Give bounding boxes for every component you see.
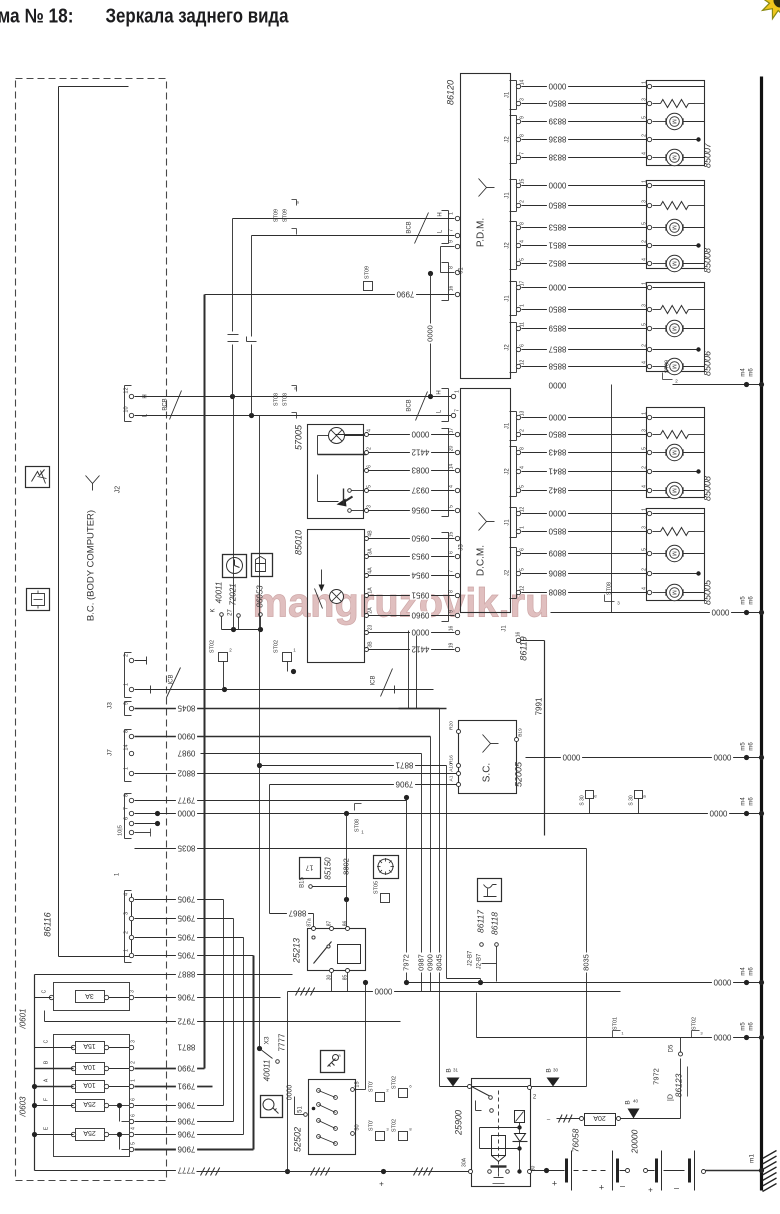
svg-text:4A: 4A: [368, 567, 374, 574]
svg-text:51: 51: [298, 1106, 304, 1113]
svg-text:4: 4: [520, 240, 526, 243]
svg-text:0000: 0000: [548, 82, 566, 91]
svg-text:0000: 0000: [411, 430, 429, 439]
svg-text:7906: 7906: [177, 1101, 195, 1110]
svg-text:25900: 25900: [454, 1110, 464, 1136]
svg-text:B19: B19: [518, 728, 524, 737]
svg-text:S 30: S 30: [580, 795, 586, 806]
svg-text:8045: 8045: [434, 954, 443, 971]
svg-text:/0603: /0603: [19, 1096, 28, 1118]
svg-text:17: 17: [306, 864, 314, 871]
svg-text:40011: 40011: [263, 1060, 272, 1082]
svg-text:8853: 8853: [548, 223, 566, 232]
svg-text:m4: m4: [741, 797, 747, 806]
svg-text:m4: m4: [741, 368, 747, 377]
svg-text:8857: 8857: [548, 345, 566, 354]
svg-text:1: 1: [520, 304, 526, 307]
svg-text:0900: 0900: [177, 732, 195, 741]
svg-text:8867: 8867: [288, 909, 306, 918]
svg-text:1: 1: [449, 212, 455, 215]
svg-text:3A: 3A: [368, 548, 374, 555]
svg-text:8850: 8850: [548, 99, 566, 108]
svg-text:ICB: ICB: [169, 674, 175, 684]
svg-text:ST02: ST02: [392, 1119, 398, 1132]
svg-text:ST08: ST08: [274, 393, 280, 406]
svg-text:J2: J2: [505, 344, 511, 351]
svg-text:85010: 85010: [294, 530, 304, 555]
svg-text:9: 9: [449, 610, 455, 613]
svg-text:3: 3: [124, 912, 130, 915]
svg-text:0987: 0987: [416, 954, 425, 971]
svg-text:20: 20: [449, 446, 455, 452]
svg-text:15A: 15A: [83, 1042, 96, 1049]
svg-text:5: 5: [520, 258, 526, 261]
svg-text:1: 1: [124, 683, 130, 686]
svg-text:7990: 7990: [396, 290, 414, 299]
svg-text:P.D.M.: P.D.M.: [476, 218, 487, 247]
svg-text:4412: 4412: [411, 448, 429, 457]
svg-text:8806: 8806: [548, 569, 566, 578]
svg-text:7972: 7972: [177, 1017, 195, 1026]
svg-text:12: 12: [520, 360, 526, 366]
svg-text:S.C.: S.C.: [482, 763, 493, 782]
svg-text:7: 7: [449, 229, 455, 232]
svg-text:8850: 8850: [548, 201, 566, 210]
svg-text:0987: 0987: [177, 749, 195, 758]
svg-text:8045: 8045: [177, 704, 195, 713]
svg-text:2: 2: [124, 654, 130, 657]
svg-text:5: 5: [367, 485, 373, 488]
svg-text:5: 5: [642, 116, 648, 119]
svg-text:4: 4: [642, 485, 648, 488]
svg-text:0937: 0937: [411, 486, 429, 495]
svg-text:2: 2: [642, 466, 648, 469]
svg-text:7777: 7777: [278, 1033, 287, 1051]
svg-text:52005: 52005: [514, 761, 524, 787]
svg-text:3: 3: [131, 1040, 137, 1043]
svg-text:m6: m6: [749, 368, 755, 377]
svg-text:J2-B7: J2-B7: [477, 953, 483, 969]
svg-text:0000: 0000: [548, 509, 566, 518]
svg-text:1: 1: [131, 1079, 137, 1082]
svg-text:8802: 8802: [177, 769, 195, 778]
svg-text:ма № 18:: ма № 18:: [0, 6, 74, 28]
svg-text:14: 14: [520, 80, 526, 86]
svg-text:ST02: ST02: [392, 1076, 398, 1089]
svg-text:85005: 85005: [703, 579, 713, 605]
svg-text:0000: 0000: [709, 809, 727, 818]
svg-text:J1: J1: [505, 192, 511, 199]
svg-text:2: 2: [520, 200, 526, 203]
svg-text:D5: D5: [669, 1044, 675, 1052]
svg-text:17: 17: [520, 281, 526, 287]
svg-text:m5: m5: [741, 742, 747, 751]
svg-text:6: 6: [449, 551, 455, 554]
svg-text:1: 1: [642, 412, 648, 415]
svg-text:0953: 0953: [411, 552, 429, 561]
svg-text:11: 11: [520, 322, 526, 327]
svg-text:1: 1: [642, 81, 648, 84]
svg-text:m6: m6: [749, 1022, 755, 1031]
svg-text:7906: 7906: [177, 1145, 195, 1154]
svg-text:8: 8: [520, 447, 526, 450]
svg-text:87a: 87a: [307, 918, 313, 927]
svg-text:31: 31: [453, 1068, 459, 1073]
svg-text:7: 7: [520, 152, 526, 155]
svg-text:7972: 7972: [652, 1068, 661, 1085]
svg-text:4: 4: [642, 258, 648, 261]
svg-text:ST05: ST05: [374, 881, 380, 894]
svg-text:3: 3: [520, 98, 526, 101]
svg-text:0083: 0083: [411, 466, 429, 475]
svg-text:3: 3: [642, 526, 648, 529]
svg-text:0000: 0000: [713, 1033, 731, 1042]
svg-text:2A: 2A: [368, 607, 374, 614]
svg-text:30A: 30A: [462, 1157, 468, 1167]
svg-text:8802: 8802: [341, 858, 350, 875]
svg-text:ST0': ST0': [369, 1120, 375, 1131]
svg-text:4: 4: [642, 152, 648, 155]
svg-text:5: 5: [642, 222, 648, 225]
svg-text:1: 1: [455, 390, 461, 393]
svg-text:8841: 8841: [548, 467, 566, 476]
svg-text:C: C: [42, 989, 48, 993]
svg-text:8850: 8850: [548, 430, 566, 439]
svg-text:3: 3: [642, 429, 648, 432]
svg-text:8836: 8836: [548, 135, 566, 144]
svg-text:6: 6: [131, 1098, 137, 1101]
svg-text:76058: 76058: [571, 1128, 581, 1152]
svg-text:ST0': ST0': [369, 1081, 375, 1092]
svg-text:D.C.M.: D.C.M.: [476, 545, 487, 576]
svg-text:16: 16: [449, 626, 455, 632]
svg-text:X3: X3: [264, 1036, 271, 1044]
svg-text:0000: 0000: [548, 283, 566, 292]
svg-text:85007: 85007: [703, 142, 713, 168]
svg-text:8850: 8850: [548, 305, 566, 314]
svg-text:–: –: [620, 1181, 625, 1191]
svg-text:J3: J3: [459, 544, 465, 551]
svg-text:12: 12: [520, 586, 526, 592]
svg-text:0000: 0000: [713, 753, 731, 762]
svg-text:25A: 25A: [83, 1129, 96, 1136]
svg-text:8: 8: [449, 266, 455, 269]
svg-text:14: 14: [124, 744, 130, 750]
svg-text:J2: J2: [505, 136, 511, 143]
svg-text:4: 4: [131, 1127, 137, 1130]
svg-text:9: 9: [520, 116, 526, 119]
svg-text:20A: 20A: [593, 1114, 606, 1121]
svg-text:0950: 0950: [411, 534, 429, 543]
svg-text:0000: 0000: [425, 325, 434, 342]
svg-text:1A: 1A: [368, 587, 374, 594]
svg-text:6: 6: [520, 548, 526, 551]
svg-text:3: 3: [642, 304, 648, 307]
svg-text:J1: J1: [505, 422, 511, 429]
svg-text:7: 7: [124, 807, 130, 810]
svg-text:86119: 86119: [519, 636, 529, 660]
svg-text:8871: 8871: [395, 761, 413, 770]
svg-text:0960: 0960: [411, 611, 429, 620]
svg-text:–: –: [674, 1183, 679, 1193]
svg-text:2: 2: [642, 240, 648, 243]
svg-text:7906: 7906: [177, 1117, 195, 1126]
svg-text:40011: 40011: [215, 582, 224, 604]
svg-text:2: 2: [642, 134, 648, 137]
svg-text:1: 1: [642, 180, 648, 183]
svg-text:ICB: ICB: [371, 675, 377, 685]
svg-text:5: 5: [642, 548, 648, 551]
svg-text:0000: 0000: [562, 753, 580, 762]
svg-text:5: 5: [642, 447, 648, 450]
svg-text:F: F: [44, 1098, 50, 1101]
svg-text:+: +: [379, 1180, 384, 1189]
svg-text:25A: 25A: [83, 1100, 96, 1107]
svg-text:8035: 8035: [581, 954, 590, 971]
svg-text:8: 8: [520, 134, 526, 137]
svg-text:m1: m1: [749, 1154, 756, 1163]
svg-text:85008: 85008: [703, 476, 713, 501]
svg-text:2: 2: [642, 568, 648, 571]
svg-text:m5: m5: [741, 596, 747, 605]
svg-text:0951: 0951: [411, 591, 429, 600]
svg-text:8859: 8859: [548, 324, 566, 333]
svg-text:7906: 7906: [177, 993, 195, 1002]
svg-text:12: 12: [124, 387, 130, 393]
svg-text:ST02: ST02: [692, 1017, 698, 1030]
svg-text:10: 10: [124, 406, 130, 412]
svg-text:3A: 3A: [85, 992, 94, 999]
svg-text:J3: J3: [107, 702, 114, 709]
svg-text:+: +: [552, 1179, 557, 1189]
svg-text:M: M: [671, 155, 677, 160]
svg-text:0000: 0000: [548, 381, 566, 390]
svg-text:ST09: ST09: [283, 209, 289, 222]
svg-text:3: 3: [367, 505, 373, 508]
svg-text:9: 9: [124, 702, 130, 705]
svg-text:1: 1: [520, 526, 526, 529]
svg-text:2: 2: [124, 931, 130, 934]
svg-text:S 30: S 30: [629, 795, 635, 806]
svg-text:M: M: [671, 364, 677, 369]
svg-text:ST08: ST08: [283, 393, 289, 406]
svg-text:86116: 86116: [43, 912, 53, 936]
svg-text:8871: 8871: [177, 1043, 195, 1052]
svg-text:8035: 8035: [177, 844, 195, 853]
svg-text:0954: 0954: [411, 571, 429, 580]
svg-text:m6: m6: [749, 967, 755, 976]
svg-text:86053: 86053: [256, 585, 265, 608]
svg-text:0000: 0000: [548, 413, 566, 422]
svg-text:8838: 8838: [548, 153, 566, 162]
svg-text:0900: 0900: [425, 954, 434, 971]
svg-text:J1: J1: [505, 295, 511, 302]
svg-text:m5: m5: [741, 1022, 747, 1031]
svg-text:ST09: ST09: [365, 266, 371, 279]
svg-text:86: 86: [343, 921, 349, 927]
svg-text:19: 19: [449, 643, 455, 649]
svg-text:M: M: [671, 326, 677, 331]
svg-text:J2-B7: J2-B7: [468, 950, 474, 966]
svg-text:m6: m6: [749, 742, 755, 751]
svg-text:40: 40: [633, 1099, 639, 1104]
svg-text:2: 2: [642, 344, 648, 347]
svg-text:J1: J1: [459, 267, 465, 274]
svg-text:8851: 8851: [548, 241, 566, 250]
svg-text:4: 4: [520, 466, 526, 469]
svg-text:86120: 86120: [446, 80, 456, 105]
svg-text:Зеркала заднего вида: Зеркала заднего вида: [106, 6, 290, 28]
svg-text:8852: 8852: [548, 259, 566, 268]
svg-text:14: 14: [449, 464, 455, 470]
svg-text:16: 16: [449, 286, 455, 292]
svg-text:5: 5: [131, 1142, 137, 1145]
svg-text:86117: 86117: [476, 910, 486, 933]
svg-text:2: 2: [367, 447, 373, 450]
svg-text:ST08: ST08: [355, 819, 361, 832]
svg-text:8: 8: [124, 730, 130, 733]
svg-text:8839: 8839: [548, 117, 566, 126]
svg-text:85150: 85150: [324, 857, 333, 880]
svg-text:J2: J2: [505, 569, 511, 576]
svg-text:0000: 0000: [713, 978, 731, 987]
svg-text:BCB: BCB: [407, 399, 413, 411]
svg-text:ST01: ST01: [613, 1017, 619, 1030]
svg-text:3B: 3B: [368, 641, 374, 648]
svg-text:8850: 8850: [548, 527, 566, 536]
svg-text:1: 1: [642, 282, 648, 285]
svg-text:4: 4: [124, 893, 130, 896]
svg-text:7991: 7991: [177, 1082, 195, 1091]
svg-text:M: M: [671, 225, 677, 230]
svg-text:3: 3: [642, 98, 648, 101]
svg-text:K: K: [211, 608, 217, 612]
svg-text:23: 23: [368, 625, 374, 631]
svg-text:8858: 8858: [548, 362, 566, 371]
svg-text:7991: 7991: [535, 697, 544, 715]
svg-text:7777: 7777: [177, 1166, 195, 1175]
svg-text:8: 8: [520, 222, 526, 225]
svg-text:ST02: ST02: [210, 640, 216, 653]
svg-text:4: 4: [449, 485, 455, 488]
svg-text:M: M: [671, 450, 677, 455]
svg-text:3: 3: [130, 990, 136, 993]
svg-text:M: M: [671, 590, 677, 595]
svg-text:7: 7: [455, 409, 461, 412]
svg-text:8843: 8843: [548, 448, 566, 457]
svg-text:R20: R20: [449, 721, 455, 730]
svg-text:57005: 57005: [294, 424, 304, 450]
svg-text:1: 1: [124, 767, 130, 770]
svg-text:12: 12: [520, 507, 526, 513]
svg-text:4: 4: [642, 361, 648, 364]
svg-text:25213: 25213: [292, 938, 302, 964]
svg-text:10A: 10A: [83, 1063, 96, 1070]
svg-text:7906: 7906: [395, 780, 413, 789]
svg-text:A10: A10: [449, 763, 455, 772]
svg-text:7906: 7906: [177, 1130, 195, 1139]
svg-text:72021: 72021: [229, 583, 238, 605]
svg-text:0000: 0000: [177, 809, 195, 818]
svg-text:B: B: [625, 1100, 632, 1104]
svg-text:10|5: 10|5: [118, 825, 124, 836]
svg-text:4B: 4B: [368, 530, 374, 537]
svg-text:6: 6: [124, 817, 130, 820]
svg-text:86123: 86123: [674, 1073, 684, 1097]
svg-text:ST02: ST02: [274, 640, 280, 653]
svg-text:6: 6: [367, 465, 373, 468]
svg-text:15: 15: [520, 179, 526, 185]
svg-text:50: 50: [355, 1124, 361, 1130]
svg-text:5: 5: [520, 485, 526, 488]
svg-text:0000: 0000: [411, 628, 429, 637]
svg-text:M: M: [671, 119, 677, 124]
svg-text:15: 15: [355, 1081, 361, 1087]
svg-text:3: 3: [642, 200, 648, 203]
svg-text:|D: |D: [668, 1094, 675, 1101]
svg-text:1: 1: [642, 508, 648, 511]
svg-text:85008: 85008: [703, 248, 713, 273]
svg-text:J1: J1: [505, 519, 511, 526]
svg-text:J2: J2: [115, 486, 122, 494]
svg-text:0000: 0000: [287, 1085, 294, 1101]
svg-text:6: 6: [131, 1114, 137, 1117]
svg-text:30: 30: [553, 1068, 559, 1073]
svg-text:8: 8: [124, 794, 130, 797]
svg-text:M: M: [671, 488, 677, 493]
svg-text:7905: 7905: [177, 951, 195, 960]
svg-text:J1: J1: [502, 625, 508, 632]
svg-text:8842: 8842: [548, 486, 566, 495]
svg-text:B: B: [446, 1068, 453, 1072]
svg-text:85006: 85006: [703, 351, 713, 376]
svg-text:m4: m4: [741, 967, 747, 976]
svg-text:7905: 7905: [177, 914, 195, 923]
svg-text:J7: J7: [107, 749, 114, 756]
svg-text:H: H: [438, 212, 444, 216]
svg-text:10A: 10A: [83, 1081, 96, 1088]
svg-text:mangruzovik.ru: mangruzovik.ru: [253, 580, 550, 626]
svg-text:13: 13: [520, 411, 526, 417]
svg-text:20000: 20000: [630, 1129, 640, 1154]
svg-text:7990: 7990: [177, 1064, 195, 1073]
svg-text:17: 17: [449, 428, 455, 434]
svg-text:2: 2: [131, 1061, 137, 1064]
svg-text:B.C. (BODY COMPUTER): B.C. (BODY COMPUTER): [86, 510, 97, 621]
svg-text:H: H: [437, 390, 443, 394]
svg-text:4412: 4412: [411, 645, 429, 654]
svg-text:J2: J2: [505, 242, 511, 249]
svg-text:R16: R16: [449, 755, 455, 764]
svg-text:7905: 7905: [177, 933, 195, 942]
svg-text:87: 87: [327, 921, 333, 927]
svg-text:ST09: ST09: [665, 360, 671, 373]
svg-text:7: 7: [449, 570, 455, 573]
svg-text:m6: m6: [749, 596, 755, 605]
svg-text:4: 4: [642, 587, 648, 590]
svg-text:0000: 0000: [711, 608, 729, 617]
svg-text:B15: B15: [300, 877, 306, 888]
svg-text:7977: 7977: [177, 796, 195, 805]
svg-text:0000: 0000: [548, 181, 566, 190]
svg-text:m6: m6: [749, 797, 755, 806]
svg-text:8808: 8808: [548, 588, 566, 597]
svg-text:8809: 8809: [548, 549, 566, 558]
svg-text:0000: 0000: [374, 987, 392, 996]
svg-text:B: B: [546, 1068, 553, 1072]
svg-text:27: 27: [228, 609, 234, 616]
svg-text:9: 9: [449, 240, 455, 243]
